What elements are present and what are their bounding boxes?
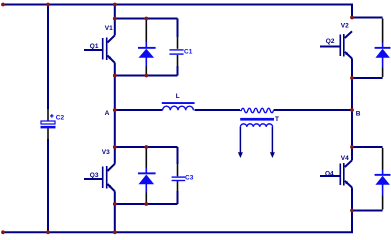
svg-text:C3: C3 (185, 175, 194, 182)
svg-text:L: L (176, 93, 180, 100)
svg-text:Q1: Q1 (90, 43, 99, 50)
svg-text:V3: V3 (102, 149, 110, 156)
svg-text:V4: V4 (341, 155, 349, 162)
svg-text:C2: C2 (56, 114, 65, 121)
svg-text:C1: C1 (184, 49, 193, 56)
svg-text:V2: V2 (341, 23, 349, 30)
svg-text:B: B (356, 111, 361, 118)
svg-text:V1: V1 (105, 25, 113, 32)
svg-text:T: T (275, 116, 279, 123)
svg-text:A: A (105, 110, 110, 117)
svg-text:Q3: Q3 (90, 172, 99, 179)
svg-text:Q2: Q2 (326, 38, 335, 45)
svg-text:Q4: Q4 (325, 171, 334, 178)
